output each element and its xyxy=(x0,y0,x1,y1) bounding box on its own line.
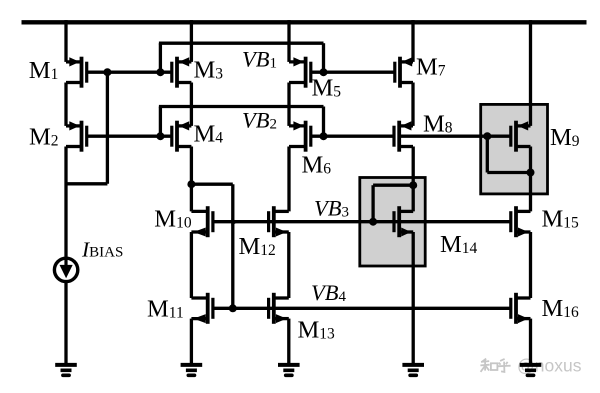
node VB1 junction at M5/M7 gate rail xyxy=(320,68,328,76)
transistor M4 xyxy=(172,121,192,152)
wire M4 drain to M10 drain xyxy=(190,147,193,212)
wire VB1 jog and crossover to M5/M7 gates xyxy=(159,43,162,72)
transistor M9 xyxy=(511,121,531,152)
transistor M8 xyxy=(394,121,413,152)
wire M9 source to M15 drain xyxy=(529,147,532,212)
wire M7 drain to M8 source xyxy=(411,83,414,126)
transistor M13 xyxy=(269,293,289,324)
ground (M11 source) xyxy=(181,365,203,375)
wire VDD to M7 source xyxy=(411,20,414,62)
wire VB3 gate rail M10-M12-M14-M15 xyxy=(213,220,511,223)
node M1 gate junction xyxy=(103,68,111,76)
wire VB2 jog and crossover to M6/M8 gates xyxy=(159,107,162,137)
ground (M16 source) xyxy=(520,365,542,375)
wire M6 drain to M12 drain xyxy=(287,147,290,212)
composite-device box around M14 xyxy=(360,178,425,267)
node M9 gate junction xyxy=(483,132,491,140)
wire VDD to M3 source xyxy=(190,20,193,62)
wire VDD to M5 source xyxy=(287,20,290,62)
wire M16 source to ground xyxy=(529,319,532,365)
transistor M16 xyxy=(511,293,531,324)
wire M2 drain branch to gate column xyxy=(66,182,107,185)
node VB4 junction at M11/M13 gates xyxy=(229,304,237,312)
node VB3 junction at M14 gate xyxy=(369,218,377,226)
current source IBIAS xyxy=(54,258,77,282)
node VB2 junction at M6/M8 gate rail xyxy=(320,132,328,140)
watermark zhihu logo text xyxy=(480,359,510,372)
power rail VDD xyxy=(22,20,587,24)
wire M8 to M9 gate xyxy=(399,135,511,138)
wire VDD to M1 source xyxy=(64,20,67,62)
wire M10 source to M11 drain xyxy=(190,232,193,298)
wire node A to VB4 column xyxy=(191,183,232,186)
transistor M15 xyxy=(511,206,531,237)
wire M3 drain to M4 source xyxy=(190,83,193,126)
node VB2 junction at M2/M4 gates xyxy=(156,132,164,140)
wire VB1 gate rail M1-M3 xyxy=(87,71,172,74)
transistor M6 xyxy=(289,121,311,152)
wire M2 drain to IBIAS xyxy=(64,147,67,260)
node M9 source junction xyxy=(527,169,535,177)
wire M11 source to ground xyxy=(190,319,193,365)
wire M1 drain to M2 source xyxy=(64,83,67,126)
transistor M5 xyxy=(289,57,311,88)
wire IBIAS to ground xyxy=(64,281,67,365)
wire M15 source to M16 drain xyxy=(529,232,532,298)
transistor M7 xyxy=(395,57,413,88)
wire VB2 gate rail M2-M4 xyxy=(87,135,172,138)
wire M12 source to M13 drain xyxy=(287,232,290,298)
wire VB4 column down to M11/M13 gates xyxy=(231,184,234,308)
node M4/M10 drain junction xyxy=(187,180,195,188)
transistor M11 xyxy=(191,293,213,324)
node M8/M14 drain junction xyxy=(409,181,417,189)
ground (M14 source) xyxy=(402,365,424,375)
wire M9 gate tie to source xyxy=(486,136,489,172)
wire VB1 gate column down to M2 drain xyxy=(106,72,109,184)
transistor M10 xyxy=(191,206,213,237)
transistor M14 xyxy=(394,206,413,237)
transistor M12 xyxy=(269,206,289,237)
ground (IBIAS) xyxy=(55,365,77,375)
wire M8 drain to M14 drain xyxy=(412,147,415,212)
transistor M3 xyxy=(172,57,192,88)
wire M14 source to ground xyxy=(412,232,415,365)
wire M14 gate tie to drain xyxy=(373,184,413,187)
composite-device box around M9 xyxy=(481,104,548,193)
wire M13 source to ground xyxy=(287,319,290,365)
transistor M1 xyxy=(66,57,87,88)
wire VB1 gate rail M5-M7 xyxy=(311,71,395,74)
transistor M2 xyxy=(66,121,87,152)
wire VB2 gate rail M6-M8 xyxy=(311,135,394,138)
wire VB4 gate rail M11-M13-M16 xyxy=(212,307,511,310)
junction bump at VB3 rail crossing xyxy=(231,218,238,225)
wire VDD to M9 source xyxy=(529,20,532,126)
node VB1 junction at M3 gate xyxy=(156,68,164,76)
wire M5 drain to M6 source xyxy=(287,83,290,126)
ground (M13 source) xyxy=(278,365,300,375)
